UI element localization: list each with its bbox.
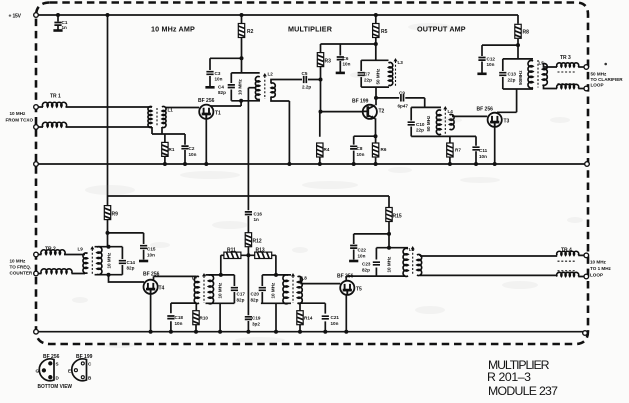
svg-text:R3: R3 <box>325 59 332 65</box>
svg-text:C5: C5 <box>302 71 308 76</box>
svg-text:R 201–3: R 201–3 <box>487 370 531 384</box>
svg-text:FROM TCXO: FROM TCXO <box>6 118 34 123</box>
svg-text:BF 199: BF 199 <box>352 99 369 105</box>
svg-text:TR 4: TR 4 <box>561 248 572 254</box>
svg-text:BOTTOM VIEW: BOTTOM VIEW <box>38 384 73 390</box>
svg-text:TR 2: TR 2 <box>45 247 56 253</box>
svg-text:82p: 82p <box>362 268 370 273</box>
svg-text:TO CLARIFIER: TO CLARIFIER <box>591 77 624 82</box>
svg-text:R10: R10 <box>200 316 209 321</box>
svg-text:C11: C11 <box>479 148 488 153</box>
svg-text:C: C <box>88 362 92 367</box>
svg-text:R6: R6 <box>381 147 387 152</box>
svg-text:R12: R12 <box>253 239 262 245</box>
svg-text:C19: C19 <box>252 316 261 321</box>
svg-text:C12: C12 <box>487 57 496 62</box>
svg-text:C9: C9 <box>399 91 405 96</box>
svg-text:10 MHz AMP: 10 MHz AMP <box>151 25 195 34</box>
svg-text:10n: 10n <box>358 254 366 259</box>
svg-text:L8: L8 <box>302 276 308 281</box>
svg-text:1n: 1n <box>62 25 68 30</box>
svg-text:R4: R4 <box>324 147 330 152</box>
svg-text:82p: 82p <box>251 298 259 303</box>
svg-text:C14: C14 <box>127 260 136 265</box>
svg-text:R14: R14 <box>304 316 313 321</box>
svg-text:C21: C21 <box>331 315 340 320</box>
svg-text:COUNTER: COUNTER <box>10 271 33 276</box>
svg-text:BF 256: BF 256 <box>337 274 354 280</box>
svg-text:TO 1 MHz: TO 1 MHz <box>590 266 612 271</box>
svg-text:L2: L2 <box>268 72 274 77</box>
svg-text:C20: C20 <box>251 292 260 297</box>
svg-text:BF 199: BF 199 <box>76 354 93 360</box>
svg-text:R9: R9 <box>112 212 119 218</box>
svg-text:BF 256: BF 256 <box>143 272 160 278</box>
svg-text:10 MHz: 10 MHz <box>10 259 27 264</box>
svg-text:22p: 22p <box>508 78 516 83</box>
svg-text:L7: L7 <box>192 276 198 281</box>
svg-text:50 MHz: 50 MHz <box>376 68 381 85</box>
svg-text:BF 256: BF 256 <box>477 107 494 113</box>
svg-text:C17: C17 <box>237 292 246 297</box>
svg-text:T2: T2 <box>379 109 385 115</box>
svg-text:LOOP: LOOP <box>591 83 604 88</box>
svg-text:C16: C16 <box>254 212 263 217</box>
svg-text:50 MHz: 50 MHz <box>591 72 608 77</box>
svg-text:82p: 82p <box>218 90 226 95</box>
svg-text:C10: C10 <box>416 122 425 127</box>
svg-text:2.2p: 2.2p <box>302 85 311 90</box>
svg-text:C6: C6 <box>343 56 349 61</box>
svg-text:10n: 10n <box>357 152 365 157</box>
svg-text:L6: L6 <box>409 247 415 252</box>
svg-text:22p: 22p <box>416 128 424 133</box>
svg-text:50 MHz: 50 MHz <box>426 115 431 132</box>
svg-text:R11: R11 <box>227 248 236 254</box>
svg-text:1n: 1n <box>254 217 260 222</box>
svg-text:10 MHz: 10 MHz <box>238 78 243 95</box>
svg-text:C23: C23 <box>362 262 371 267</box>
svg-text:10n: 10n <box>343 62 351 67</box>
svg-text:R7: R7 <box>455 148 461 153</box>
svg-text:10n: 10n <box>215 77 223 82</box>
svg-text:L4: L4 <box>448 109 454 114</box>
svg-text:L3: L3 <box>398 60 404 65</box>
svg-text:C3: C3 <box>215 71 221 76</box>
svg-text:10 MHz: 10 MHz <box>218 282 223 299</box>
svg-text:22p: 22p <box>364 78 372 83</box>
svg-text:10 MHz: 10 MHz <box>10 111 27 116</box>
svg-text:10 MHz: 10 MHz <box>387 256 392 273</box>
svg-text:10n: 10n <box>331 321 339 326</box>
svg-text:TR 3: TR 3 <box>560 55 571 61</box>
svg-text:10n: 10n <box>479 154 487 159</box>
svg-text:MODULE 237: MODULE 237 <box>488 384 558 398</box>
svg-text:R13: R13 <box>256 248 265 254</box>
svg-text:C7: C7 <box>364 72 370 77</box>
svg-text:10n: 10n <box>487 62 495 67</box>
svg-text:10 MHz: 10 MHz <box>107 252 112 269</box>
svg-text:E: E <box>68 369 71 374</box>
svg-text:D: D <box>56 376 60 381</box>
svg-text:C22: C22 <box>358 248 367 253</box>
svg-text:C15: C15 <box>147 247 156 252</box>
svg-text:10n: 10n <box>175 321 183 326</box>
svg-text:6p47: 6p47 <box>398 104 409 109</box>
svg-text:L5: L5 <box>539 61 545 66</box>
svg-text:C4: C4 <box>218 85 224 90</box>
svg-text:R2: R2 <box>247 29 254 35</box>
svg-text:T4: T4 <box>159 286 165 292</box>
svg-text:TR 1: TR 1 <box>50 94 61 100</box>
svg-text:L1: L1 <box>168 108 174 113</box>
svg-text:82p: 82p <box>127 266 135 271</box>
svg-text:MULTIPLIER: MULTIPLIER <box>288 25 333 34</box>
svg-text:T1: T1 <box>215 111 221 117</box>
svg-text:T5: T5 <box>356 287 362 293</box>
svg-text:R1: R1 <box>169 147 175 152</box>
svg-text:10 MHz: 10 MHz <box>590 260 607 265</box>
svg-text:C2: C2 <box>189 146 195 151</box>
svg-text:G: G <box>36 369 40 374</box>
svg-text:+ 15V: + 15V <box>9 14 22 20</box>
svg-text:S: S <box>56 362 59 367</box>
svg-text:3p2: 3p2 <box>252 322 260 327</box>
svg-text:L9: L9 <box>78 247 84 252</box>
svg-text:R5: R5 <box>381 29 388 35</box>
svg-text:R8: R8 <box>523 30 530 36</box>
svg-text:C18: C18 <box>175 315 184 320</box>
svg-text:10n: 10n <box>147 253 155 258</box>
svg-text:BF 256: BF 256 <box>198 98 215 104</box>
svg-text:10 MHz: 10 MHz <box>271 282 276 299</box>
svg-text:LOOP: LOOP <box>590 273 603 278</box>
svg-text:B: B <box>88 376 92 381</box>
svg-text:T3: T3 <box>504 119 510 125</box>
svg-text:TO FREQ.: TO FREQ. <box>10 265 32 270</box>
svg-text:82p: 82p <box>237 298 245 303</box>
svg-text:R15: R15 <box>393 214 402 220</box>
svg-text:C13: C13 <box>508 72 517 77</box>
svg-text:10n: 10n <box>189 152 197 157</box>
svg-text:OUTPUT AMP: OUTPUT AMP <box>417 25 466 34</box>
svg-text:BF 256: BF 256 <box>43 354 60 360</box>
svg-text:50MHz: 50MHz <box>518 70 523 85</box>
svg-text:C8: C8 <box>357 146 363 151</box>
